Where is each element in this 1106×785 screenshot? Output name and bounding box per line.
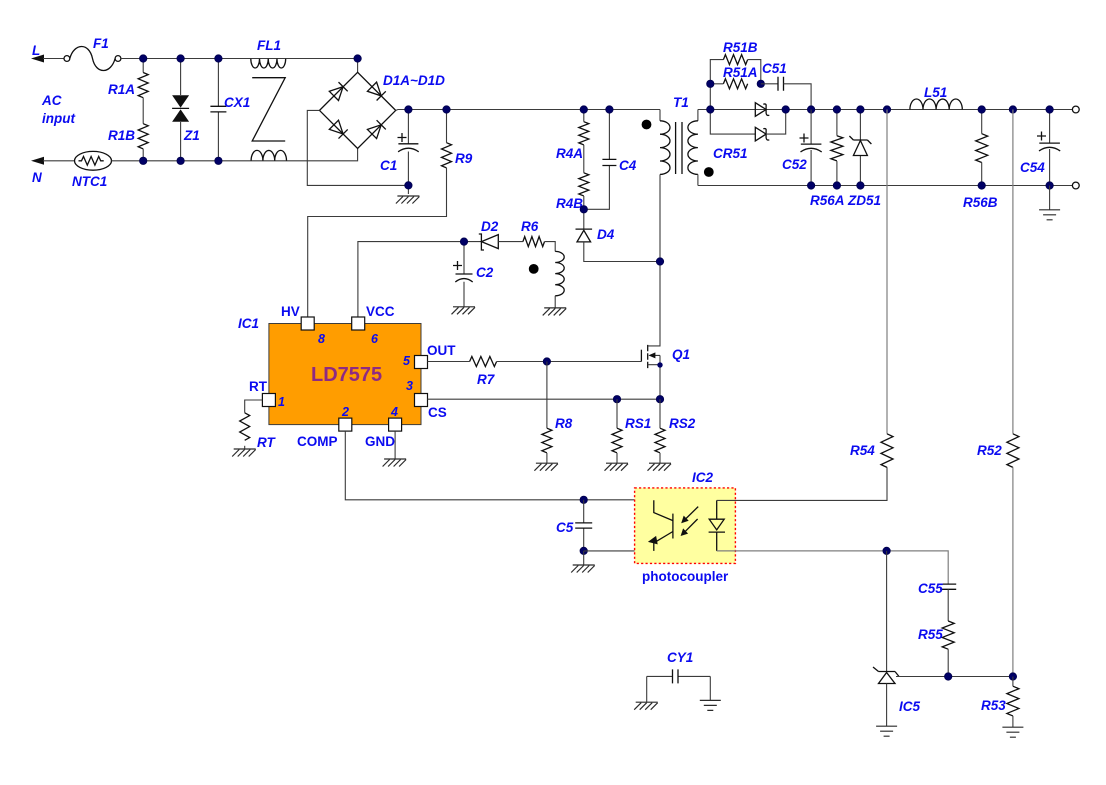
transistor Q1 (power MOSFET) <box>641 262 690 400</box>
transformer T1 primary winding <box>660 95 689 262</box>
svg-text:1: 1 <box>278 395 285 409</box>
resistor R54 <box>850 434 893 468</box>
bridge rectifier D1A~D1D <box>320 72 446 148</box>
TVS Z1 (bidirectional suppressor) <box>172 59 200 161</box>
common-mode choke FL1 core <box>252 78 285 141</box>
svg-text:RS1: RS1 <box>625 416 651 431</box>
wire: bridge top lead <box>357 59 359 73</box>
svg-text:C52: C52 <box>782 157 807 172</box>
junction: C51 / output node <box>807 106 814 113</box>
junction: R51A/R51B right <box>757 80 764 87</box>
junction: CS / RS1 <box>613 396 620 403</box>
svg-text:F1: F1 <box>93 36 109 51</box>
wire: CS pin to current sense resistors <box>428 398 661 400</box>
wire: C55 to R55 <box>947 589 949 621</box>
svg-text:3: 3 <box>406 379 413 393</box>
resistor R8 <box>542 362 573 464</box>
wire: C5 to photocoupler transistor <box>584 550 654 552</box>
junction: AC bottom rail / Z1 <box>177 157 184 164</box>
junction: R52 riser tap <box>1009 106 1016 113</box>
svg-text:C54: C54 <box>1020 160 1045 175</box>
svg-text:photocoupler: photocoupler <box>642 569 729 584</box>
svg-text:5: 5 <box>403 354 411 368</box>
diode D2 <box>479 219 523 250</box>
svg-text:R54: R54 <box>850 443 875 458</box>
junction: CR51 diodes common <box>782 106 789 113</box>
wire: R52 riser (gray) <box>1012 110 1014 434</box>
svg-text:CY1: CY1 <box>667 650 693 665</box>
ground (CY1 earth) <box>700 700 721 710</box>
diode D4 (clamp) <box>576 209 661 261</box>
resistor R56A <box>810 110 845 209</box>
junction: secondary winding top <box>707 106 714 113</box>
svg-text:C4: C4 <box>619 158 637 173</box>
junction: AC top rail / bridge <box>354 55 361 62</box>
junction: AC top rail / Z1 <box>177 55 184 62</box>
svg-text:input: input <box>42 111 75 126</box>
resistor RS2 <box>655 399 696 463</box>
capacitor C2 (VCC electrolytic) <box>453 242 494 307</box>
svg-text:CX1: CX1 <box>224 95 250 110</box>
IC1 pin 5 OUT <box>403 343 456 369</box>
thermistor NTC1 <box>72 151 112 189</box>
junction: R56B top <box>978 106 985 113</box>
svg-text:R1A: R1A <box>108 82 135 97</box>
terminal: V+ output <box>1072 106 1079 113</box>
svg-text:CS: CS <box>428 405 447 420</box>
capacitor C52 (output electrolytic) <box>782 110 822 186</box>
junction: AC top rail / R1A <box>140 55 147 62</box>
wire: R1A to R1B <box>142 98 144 124</box>
ground (C5) <box>571 565 595 573</box>
junction: DC rail / C4 <box>606 106 613 113</box>
capacitor CX1 <box>210 59 250 161</box>
wire: L arrow to fuse F1 <box>43 58 64 60</box>
junction: C52 bottom <box>807 182 814 189</box>
svg-text:IC2: IC2 <box>692 470 714 485</box>
ground (C2) <box>452 307 476 315</box>
junction: R4B / C4 / D4 <box>580 206 587 213</box>
capacitor C51 <box>762 61 811 110</box>
wire: CY1 right leg <box>709 676 711 700</box>
svg-text:R7: R7 <box>477 372 496 387</box>
junction: Q1 source/bulk <box>657 362 662 367</box>
ground (auxiliary winding) <box>543 308 567 316</box>
svg-text:C2: C2 <box>476 265 494 280</box>
svg-text:C5: C5 <box>556 520 574 535</box>
junction: ZD51 top <box>857 106 864 113</box>
transformer T1 core <box>676 122 682 174</box>
wire: CY1 left leg <box>646 676 648 702</box>
svg-text:FL1: FL1 <box>257 38 281 53</box>
wire: R54 to photocoupler LED anode <box>717 467 887 500</box>
ground (IC1 GND pin) <box>383 459 407 467</box>
svg-text:GND: GND <box>365 434 395 449</box>
ground (R8) <box>534 463 558 471</box>
svg-text:OUT: OUT <box>427 343 456 358</box>
T1 primary polarity dot <box>642 120 652 130</box>
junction: feedback tap (R54 riser) <box>883 106 890 113</box>
capacitor C4 <box>584 110 637 210</box>
svg-text:Q1: Q1 <box>672 347 690 362</box>
svg-text:8: 8 <box>318 332 325 346</box>
capacitor C54 (output electrolytic) <box>1020 110 1060 186</box>
svg-text:RS2: RS2 <box>669 416 696 431</box>
svg-text:D2: D2 <box>481 219 499 234</box>
svg-text:ZD51: ZD51 <box>847 193 881 208</box>
capacitor C5 <box>556 500 592 551</box>
svg-text:T1: T1 <box>673 95 689 110</box>
svg-text:R55: R55 <box>918 627 943 642</box>
wire: GND pin to ground <box>394 431 396 459</box>
capacitor C1 (bulk electrolytic) <box>380 110 419 186</box>
T1 auxiliary winding <box>555 251 564 308</box>
junction: VCC / D2 / C2 <box>460 238 467 245</box>
svg-text:R56A: R56A <box>810 193 845 208</box>
photocoupler IC2 body <box>635 470 736 584</box>
junction: CS / RS2 <box>656 396 663 403</box>
wire: R52 to divider node <box>1012 467 1014 676</box>
common-mode choke FL1 bottom winding <box>251 150 286 160</box>
svg-text:R56B: R56B <box>963 195 998 210</box>
wire: C54 to earth <box>1049 186 1051 210</box>
wire: OUT pin to R7 <box>428 361 470 363</box>
svg-text:NTC1: NTC1 <box>72 174 107 189</box>
wire: R54 riser (gray) <box>886 110 888 434</box>
ground (RT) <box>232 449 256 457</box>
wire: photocoupler LED cathode to feedback node <box>717 551 949 584</box>
junction: C54 top <box>1046 106 1053 113</box>
resistor R7 <box>470 357 497 388</box>
junction: R56B bottom <box>978 182 985 189</box>
svg-text:RT: RT <box>257 435 277 450</box>
svg-text:IC5: IC5 <box>899 699 921 714</box>
ground (RS2) <box>648 463 672 471</box>
transformer T1 secondary winding <box>688 110 698 186</box>
wire: R9 to HV pin of IC1 <box>308 168 447 317</box>
resistor R1B <box>108 124 148 161</box>
junction: DC rail / R9 <box>443 106 450 113</box>
junction: DC rail / C1 <box>405 106 412 113</box>
wire: VCC node to D2 <box>358 242 482 317</box>
shunt regulator IC5 (TL431) <box>873 667 921 726</box>
junction: AC bottom rail / R1B <box>140 157 147 164</box>
svg-text:R6: R6 <box>521 219 539 234</box>
svg-text:LD7575: LD7575 <box>311 364 382 386</box>
svg-text:6: 6 <box>371 332 379 346</box>
resistor RT (timing) <box>240 400 277 450</box>
resistor R9 <box>442 110 473 168</box>
wire: C5 bottom to ground <box>583 551 585 565</box>
svg-text:D4: D4 <box>597 227 615 242</box>
svg-text:R51A: R51A <box>723 65 758 80</box>
node L (AC line input arrow) <box>31 43 44 63</box>
svg-text:VCC: VCC <box>366 304 395 319</box>
svg-text:Z1: Z1 <box>183 128 200 143</box>
svg-text:CR51: CR51 <box>713 146 748 161</box>
op IC1 LD7575 body <box>238 316 421 425</box>
junction: AC bottom rail / CX1 <box>215 157 222 164</box>
svg-text:4: 4 <box>390 405 398 419</box>
terminal: V- output <box>1072 182 1079 189</box>
wire: IC5 cathode riser <box>886 551 888 672</box>
junction: R56A top <box>833 106 840 113</box>
IC1 pin 2 COMP <box>297 405 352 449</box>
junction: AC top rail / CX1 <box>215 55 222 62</box>
junction: COMP wire / C5 top <box>580 496 587 503</box>
diode CR51 upper (output rectifier) <box>713 103 769 161</box>
resistor R4B <box>556 145 589 211</box>
IC1 pin 8 HV <box>281 304 325 346</box>
capacitor C55 <box>918 581 956 596</box>
IC1 pin 6 VCC <box>352 304 395 346</box>
wire: reference divider row <box>896 676 1013 678</box>
zener ZD51 <box>847 110 881 209</box>
resistor R56B <box>963 110 998 211</box>
IC2 phototransistor <box>648 500 673 551</box>
junction: gate drive / R8 <box>543 358 550 365</box>
svg-text:R4A: R4A <box>556 146 583 161</box>
svg-text:COMP: COMP <box>297 434 338 449</box>
svg-text:C1: C1 <box>380 158 397 173</box>
wire: C1 to ground <box>407 185 409 194</box>
IC2 light arrows <box>681 507 699 536</box>
wire: NTC1 to bottom AC rail <box>112 148 358 161</box>
T1 secondary polarity dot <box>704 167 714 177</box>
svg-text:RT: RT <box>249 379 268 394</box>
svg-text:R4B: R4B <box>556 196 583 211</box>
svg-text:C51: C51 <box>762 61 787 76</box>
resistor R55 <box>918 621 954 677</box>
resistor R4A <box>556 110 589 162</box>
wire: fuse to top AC rail with junctions <box>121 58 358 60</box>
resistor R52 <box>977 434 1019 468</box>
fuse F1 <box>64 36 121 71</box>
wire: secondary top rail <box>698 109 1072 111</box>
resistor R51B <box>723 40 761 84</box>
resistor R1A <box>108 59 148 98</box>
IC1 pin 3 CS <box>406 379 447 420</box>
resistor RS1 <box>612 399 651 463</box>
wire: DC+ rail from bridge to transformer <box>396 109 660 112</box>
svg-text:AC: AC <box>41 93 62 108</box>
node N (AC neutral input arrow) <box>31 157 44 185</box>
svg-text:HV: HV <box>281 304 300 319</box>
svg-text:R53: R53 <box>981 698 1006 713</box>
svg-text:2: 2 <box>341 405 349 419</box>
resistor R53 <box>981 677 1019 728</box>
wire: COMP pin down and over to C5 <box>345 431 654 500</box>
capacitor CY1 (Y-cap) <box>647 650 711 683</box>
svg-text:R52: R52 <box>977 443 1002 458</box>
junction: C55/R55 branch <box>945 673 952 680</box>
svg-text:D1A~D1D: D1A~D1D <box>383 73 445 88</box>
junction: R51A left <box>707 80 714 87</box>
junction: R56A bottom <box>833 182 840 189</box>
resistor R51A <box>723 65 758 89</box>
diode CR51 lower (parallel rectifier) <box>710 110 785 141</box>
wire: snubber to C51 <box>761 83 778 85</box>
ground (R53 earth) <box>1002 727 1023 737</box>
svg-text:L: L <box>32 43 40 58</box>
junction: feedback node / IC5 cathode <box>883 547 890 554</box>
resistor R6 <box>521 219 555 251</box>
junction: C5 bottom / opto emitter <box>580 547 587 554</box>
svg-text:R9: R9 <box>455 151 473 166</box>
text AC input <box>41 93 75 126</box>
junction: R52/R53 divider <box>1009 673 1016 680</box>
wire: N arrow to NTC1 <box>43 160 75 162</box>
svg-text:R1B: R1B <box>108 128 135 143</box>
wire: bridge negative return to C1 bottom <box>307 110 408 185</box>
svg-text:IC1: IC1 <box>238 316 259 331</box>
svg-text:C55: C55 <box>918 581 943 596</box>
wire: secondary bottom rail <box>698 185 1072 187</box>
ground (CY1 primary) <box>634 702 658 710</box>
junction: ZD51 bottom <box>857 182 864 189</box>
svg-text:R8: R8 <box>555 416 573 431</box>
svg-text:R51B: R51B <box>723 40 758 55</box>
inductor L51 <box>910 85 962 110</box>
IC1 pin 4 GND <box>365 405 402 449</box>
wire: R7 to Q1 gate <box>497 361 642 363</box>
junction: C54 bottom <box>1046 182 1053 189</box>
svg-text:N: N <box>32 170 42 185</box>
junction: primary bottom / D4 return <box>656 258 663 265</box>
ground (C54 earth) <box>1039 210 1060 220</box>
junction: DC rail / R4A <box>580 106 587 113</box>
ground (C1) <box>396 196 420 204</box>
common-mode choke FL1 top winding <box>251 38 286 68</box>
junction: C1 bottom / bridge return <box>405 182 412 189</box>
ground (IC5 earth) <box>876 726 897 736</box>
T1 auxiliary polarity dot <box>529 264 539 274</box>
svg-text:L51: L51 <box>924 85 947 100</box>
IC1 pin 1 RT <box>249 379 285 409</box>
IC2 LED <box>709 500 725 551</box>
ground (RS1) <box>605 463 629 471</box>
wire: snubber left riser <box>710 60 723 110</box>
